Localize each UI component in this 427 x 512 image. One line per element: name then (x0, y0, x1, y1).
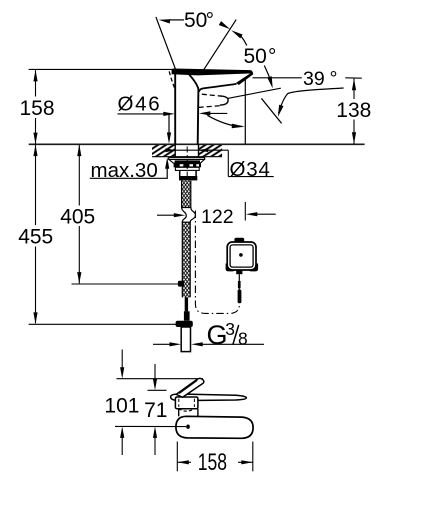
diameter 34 dimension line through hole (166, 149, 229, 151)
dimension 101 (121, 350, 123, 369)
svg-text:138: 138 (336, 99, 371, 122)
control box center dot (239, 253, 243, 257)
pull cord weight (238, 290, 242, 304)
G3/8 threaded tail (181, 327, 190, 352)
dimension 122 right tick arrow (244, 202, 246, 221)
control box body inner line (230, 245, 253, 267)
control box top nub (234, 238, 244, 244)
max.30 upper arrow at deck top (168, 114, 170, 134)
hose end inner tube (185, 297, 188, 311)
deck hatch right block (199, 145, 222, 156)
leader arrow from second 50 deg label down to spout axis (264, 66, 270, 80)
dimension 455 line (35, 145, 37, 225)
arc arrow pair at right swing line (219, 21, 230, 29)
diameter 34 leader and label (227, 150, 229, 176)
control box body outer (227, 242, 256, 270)
spout tip black wedge (aerator face) (236, 72, 253, 85)
grip pivot dot (186, 425, 190, 429)
blade inner fold line (179, 380, 197, 393)
deck bottom line (152, 156, 222, 158)
spout swivel arc with arrow (207, 115, 242, 126)
spout top edge (199, 84, 237, 92)
svg-text:158: 158 (198, 449, 227, 475)
dashed swivelled spout lower edge (199, 106, 222, 108)
svg-text:Ø34: Ø34 (230, 158, 271, 181)
455 bottom reference line (29, 323, 179, 325)
dimension 158 line upper left (35, 70, 37, 96)
pull cord (238, 274, 240, 281)
dashed swivelled spout upper edge (202, 94, 222, 96)
svg-text:3: 3 (225, 319, 235, 339)
faucet body front curve under lever (189, 75, 198, 90)
stub from arrow pair to 50 deg label 2 (241, 36, 247, 46)
dimension 405 line (78, 145, 80, 206)
dimension 158 lower line and arrows (177, 461, 191, 463)
control box stem (236, 270, 242, 274)
mounting hole left edge (174, 144, 176, 157)
svg-text:°: ° (268, 45, 276, 68)
escutcheon flange top plate (169, 157, 205, 159)
dimension 71 (154, 364, 156, 380)
control box left foot (226, 264, 236, 272)
hose side nub fitting (178, 281, 184, 287)
flexible hose braided upper segment (182, 181, 191, 208)
svg-text:455: 455 (18, 225, 53, 248)
countertop deck line (29, 143, 365, 145)
lever swing line right (50 deg) (203, 20, 236, 72)
deck hatch left block (152, 145, 175, 156)
swivelled spout tip cap (220, 96, 228, 105)
underline and arrow for diameter 46 (118, 113, 168, 115)
faucet body right edge (197, 89, 200, 144)
hose end collar (176, 321, 193, 327)
svg-text:39: 39 (303, 68, 325, 90)
svg-text:°: ° (330, 68, 338, 90)
svg-text:50: 50 (244, 45, 267, 68)
grip centerline (115, 425, 186, 427)
cartridge box (175, 397, 198, 409)
hose S-bend connector (182, 208, 196, 223)
svg-text:122: 122 (201, 206, 234, 228)
handle lever blade raised (176, 378, 204, 397)
dash-dot routing line to control box (195, 211, 239, 314)
svg-text:71: 71 (144, 399, 167, 422)
stem to grip (178, 409, 180, 417)
svg-text:158: 158 (20, 97, 55, 120)
max.30 lower arrow at deck bottom (165, 157, 169, 169)
pull cord link (238, 288, 240, 290)
faucet body left edge (174, 69, 176, 144)
extension line from lever tip down to deck (244, 78, 246, 144)
39 deg reference line from spout tip (253, 77, 302, 79)
dashed lever alternate position (169, 71, 175, 90)
nut lower ring (175, 167, 199, 170)
svg-text:8: 8 (238, 328, 248, 348)
lever handle black bar (172, 68, 253, 75)
threaded shank (179, 170, 181, 176)
flange tapered collar (169, 159, 205, 163)
dimension 158 lower extension lines (176, 442, 178, 472)
escutcheon plate lens shape (171, 394, 247, 401)
dimension 138 line (353, 79, 355, 99)
handle blade tip reference line (101 top) (117, 378, 204, 380)
405 bottom reference line (72, 283, 179, 285)
svg-text:Ø46: Ø46 (118, 93, 162, 116)
arrow to left swing line (159, 19, 171, 23)
handle grip capsule (176, 416, 253, 438)
flexible hose braided lower segment (182, 222, 190, 298)
lever swing line left (50 deg) (156, 17, 176, 69)
G 3/8 dimension arrows (153, 343, 171, 345)
right arrow for diameter 46 (199, 111, 211, 115)
mounting hole right edge (198, 144, 200, 157)
71 top reference tick (148, 389, 167, 391)
svg-text:50: 50 (184, 9, 207, 32)
reference line: lever top level (158 top ref) (29, 68, 176, 70)
dimension 122 left line and arrow (157, 214, 175, 216)
39 deg arc with arrow (279, 88, 344, 113)
pull cord upper rod (238, 281, 241, 288)
spout axis line (228, 88, 281, 98)
svg-text:405: 405 (60, 205, 95, 228)
leader line to 50 deg label 1 (169, 19, 184, 21)
locking nut with slots (174, 163, 201, 167)
svg-text:101: 101 (104, 394, 139, 417)
spray direction line (39 deg ray) (261, 98, 281, 123)
cartridge hidden dashed arcs (179, 409, 195, 411)
hose end sleeve (184, 311, 190, 320)
faucet centerline through shank (186, 147, 188, 181)
control box right foot (248, 264, 258, 272)
svg-text:°: ° (206, 9, 214, 32)
